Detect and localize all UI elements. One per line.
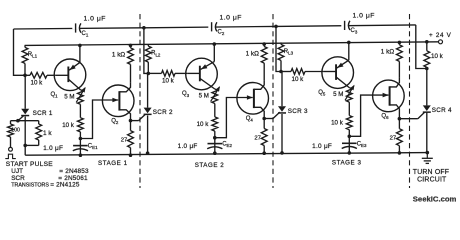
node 1k-ohm stage1 on rail: [129, 44, 133, 48]
resistor 10k stage2 timing: [197, 104, 218, 138]
svg-text:Q3: Q3: [182, 91, 190, 98]
svg-text:Q6: Q6: [381, 114, 389, 121]
transistor Q2 UJT 2N4853: [102, 83, 134, 125]
transistor Q4 UJT 2N4853: [237, 80, 269, 122]
svg-text:10 k: 10 k: [431, 53, 444, 60]
resistor RL1: [22, 45, 37, 75]
label +24V: [429, 32, 452, 39]
svg-text:10 k: 10 k: [62, 122, 75, 129]
resistor RL2: [145, 44, 160, 73]
wire C-line drop to SCR4 anode: [416, 25, 427, 69]
capacitor C2 1.0uF: [208, 14, 242, 36]
node SCR1 cathode / 1k return junction: [23, 144, 27, 148]
wire common bottom rail: [25, 153, 427, 156]
svg-text:10 k: 10 k: [331, 120, 344, 127]
node Q6 base-1 junction: [398, 117, 402, 121]
node SCR3 cathode on bottom rail: [280, 151, 284, 155]
resistor 27-ohm stage1: [121, 121, 134, 156]
svg-text:1.0 μF: 1.0 μF: [353, 13, 375, 20]
svg-text:RL1: RL1: [28, 52, 38, 59]
node 27-ohm stage2 on bottom rail: [262, 151, 266, 155]
label TURN OFF CIRCUIT: [413, 169, 449, 184]
wire UJT Q2 emitter feed: [80, 100, 118, 139]
resistor 10k stage1 base: [25, 72, 56, 86]
svg-text:27: 27: [121, 137, 128, 143]
wire SCR1 gate lead: [18, 116, 24, 121]
SCR 1 2N5061: [21, 75, 53, 117]
node SCR1 gate tap: [16, 119, 20, 123]
svg-text:1.0 μF: 1.0 μF: [43, 145, 63, 152]
node turn-off 10k on rail: [425, 40, 429, 44]
transistor Q3 PNP 2N4125: [182, 44, 217, 98]
SCR 2 2N5061: [144, 73, 173, 116]
capacitor CE2 1.0uF: [178, 138, 233, 154]
wire SCR3 cathode to bottom rail: [281, 114, 283, 153]
node C2-C3 junction: [274, 25, 278, 29]
resistor 10k stage2 base: [148, 71, 187, 85]
node SCR4 anode junction: [425, 67, 429, 71]
capacitor CE3 1.0uF: [312, 136, 367, 153]
label UJT type: [11, 168, 89, 175]
label transistor type: [11, 182, 80, 189]
resistor 27-ohm stage3: [390, 119, 403, 153]
svg-text:5 M: 5 M: [64, 93, 74, 100]
stage boundary dashed line 1: [139, 14, 141, 188]
node SCR4 cathode on bottom rail: [426, 151, 430, 155]
capacitor CE1 1.0uF: [43, 139, 98, 156]
svg-text:1.0 μF: 1.0 μF: [220, 14, 242, 21]
svg-text:1 k: 1 k: [43, 130, 52, 137]
wire SCR4 cathode to ground: [426, 112, 428, 152]
node 1k-ohm stage3 on rail: [398, 41, 402, 45]
svg-text:+ 24 V: + 24 V: [429, 32, 452, 39]
svg-text:CE1: CE1: [88, 144, 98, 151]
node C1-C2 junction: [142, 26, 146, 30]
svg-text:CE3: CE3: [357, 141, 367, 148]
svg-text:1.0 μF: 1.0 μF: [84, 16, 106, 23]
capacitor C3 1.0uF: [341, 13, 375, 35]
svg-text:1 kΩ: 1 kΩ: [112, 52, 126, 59]
svg-text:10 k: 10 k: [31, 80, 44, 87]
svg-text:SCR: SCR: [11, 175, 25, 182]
svg-text:CE2: CE2: [222, 142, 232, 149]
transistor Q5 PNP 2N4125: [318, 42, 353, 96]
svg-text:CIRCUIT: CIRCUIT: [417, 176, 447, 183]
wire UJT Q4 emitter feed: [215, 98, 253, 138]
resistor 27-ohm stage2: [254, 119, 267, 154]
node Q4 base-1 junction: [262, 117, 266, 121]
node Q2 base-1 junction: [129, 119, 133, 123]
node CE3 bottom on rail: [348, 151, 352, 155]
svg-text:27: 27: [254, 135, 261, 141]
svg-text:10 k: 10 k: [162, 78, 175, 85]
svg-text:RL2: RL2: [151, 51, 161, 58]
node CE1 bottom on rail: [79, 153, 83, 157]
node CE1 top junction: [79, 137, 83, 141]
SCR 3 2N5061: [278, 72, 308, 116]
potentiometer 5M stage3: [333, 85, 354, 102]
svg-text:C3: C3: [351, 28, 358, 35]
svg-text:TRANSISTORS: TRANSISTORS: [11, 183, 49, 189]
svg-text:10 k: 10 k: [292, 76, 305, 83]
svg-text:C2: C2: [218, 30, 225, 37]
wire Q4 B1 to SCR3 gate: [264, 112, 280, 118]
svg-text:Q4: Q4: [246, 116, 254, 123]
wire C-line drop to SCR3 anode: [276, 26, 281, 71]
svg-text:1 kΩ: 1 kΩ: [381, 49, 395, 56]
svg-text:SCR 2: SCR 2: [153, 109, 173, 116]
svg-text:5 M: 5 M: [199, 93, 209, 100]
wire SCR2 cathode to bottom rail: [147, 115, 149, 153]
svg-text:STAGE 3: STAGE 3: [332, 160, 362, 167]
svg-text:5 M: 5 M: [333, 91, 343, 98]
svg-text:UJT: UJT: [11, 168, 23, 175]
pulse waveform icon: [5, 154, 16, 158]
wire SCR1 cathode to bottom rail: [24, 117, 26, 156]
wire coupling line C3 segment: [276, 25, 416, 27]
resistor 10k turn-off: [424, 42, 444, 69]
svg-text:STAGE 1: STAGE 1: [98, 160, 128, 167]
node 27-ohm stage3 on bottom rail: [398, 151, 402, 155]
svg-text:1.0 μF: 1.0 μF: [178, 143, 198, 150]
node SCR3 anode junction: [279, 70, 283, 74]
wire Q2 B1 to SCR2 gate: [131, 114, 146, 120]
node CE3 top junction: [348, 135, 352, 139]
resistor 1k-ohm stage1: [112, 45, 133, 82]
node SCR1 anode junction: [23, 74, 27, 78]
node Q5 emitter on rail: [347, 41, 351, 45]
svg-text:1.0 μF: 1.0 μF: [312, 143, 332, 150]
node SCR2 anode junction: [147, 72, 151, 76]
stage boundary dashed line 2: [272, 14, 274, 188]
node Q1 emitter on rail: [78, 44, 82, 48]
svg-text:100: 100: [11, 128, 20, 134]
svg-text:STAGE 2: STAGE 2: [195, 162, 225, 169]
resistor 1k-ohm stage3: [381, 42, 403, 78]
wire Q6 B1 to SCR4 gate: [399, 112, 424, 118]
start pulse input terminal: [9, 147, 13, 151]
stage boundary dashed line 3: [409, 14, 411, 188]
svg-text:RL3: RL3: [284, 49, 294, 56]
capacitor C1 1.0uF: [72, 16, 106, 38]
node SCR2 cathode on bottom rail: [146, 151, 150, 155]
svg-text:27: 27: [390, 136, 397, 142]
label STAGE 1: [98, 160, 128, 167]
svg-text:SCR 3: SCR 3: [288, 108, 308, 115]
resistor 100-ohm start pulse: [8, 121, 20, 148]
svg-text:= 2N4853: = 2N4853: [59, 168, 89, 175]
wire coupling line C2 segment: [144, 26, 276, 27]
potentiometer 5M stage1: [64, 87, 85, 104]
node 27-ohm stage1 on bottom rail: [129, 153, 133, 157]
svg-text:TURN OFF: TURN OFF: [413, 169, 449, 176]
svg-text:SCR 4: SCR 4: [432, 107, 452, 114]
transistor Q1 PNP 2N4125: [51, 45, 86, 98]
svg-text:1 kΩ: 1 kΩ: [246, 50, 260, 57]
node Q3 emitter on rail: [213, 42, 217, 46]
resistor RL3: [278, 42, 293, 71]
wire UJT Q6 emitter feed: [349, 95, 388, 136]
svg-text:C1: C1: [82, 31, 89, 38]
svg-text:= 2N4125: = 2N4125: [50, 182, 80, 189]
resistor 10k stage3 base: [281, 69, 323, 83]
resistor 1k-ohm stage2: [246, 44, 268, 80]
wire +24V supply rail: [25, 42, 441, 46]
svg-text:10 k: 10 k: [197, 121, 210, 128]
resistor 1k gate bias: [25, 121, 52, 146]
label STAGE 3: [332, 160, 362, 167]
svg-text:Q2: Q2: [111, 118, 119, 125]
wire coupling line C1 segment (SCR1 anode to SCR2 anode): [14, 28, 145, 29]
transistor Q6 UJT 2N4853: [373, 78, 405, 120]
label STAGE 2: [195, 162, 225, 169]
wire C1 left plate to SCR1 anode (left edge route): [14, 29, 26, 75]
ground: [422, 153, 433, 164]
label SCR type: [11, 175, 88, 182]
watermark SeekIC.com: [413, 195, 457, 204]
resistor 10k stage1 timing: [62, 104, 83, 138]
node CE2 top junction: [213, 136, 217, 140]
node CE2 bottom on rail: [213, 151, 217, 155]
wire SCR1 gate bus: [11, 120, 39, 122]
svg-text:Q5: Q5: [318, 90, 326, 97]
label START PULSE: [6, 161, 53, 168]
SCR 4 2N5061: [423, 69, 452, 115]
potentiometer 5M stage2: [199, 86, 220, 103]
svg-text:SCR 1: SCR 1: [33, 110, 53, 117]
+24V supply terminal: [439, 40, 443, 44]
svg-text:SeekIC.com: SeekIC.com: [413, 195, 457, 204]
svg-text:Q1: Q1: [51, 92, 59, 99]
node 1k-ohm stage2 on rail: [262, 42, 266, 46]
wire C-line drop to SCR2 anode: [144, 28, 148, 74]
resistor 10k stage3 timing: [331, 102, 352, 136]
